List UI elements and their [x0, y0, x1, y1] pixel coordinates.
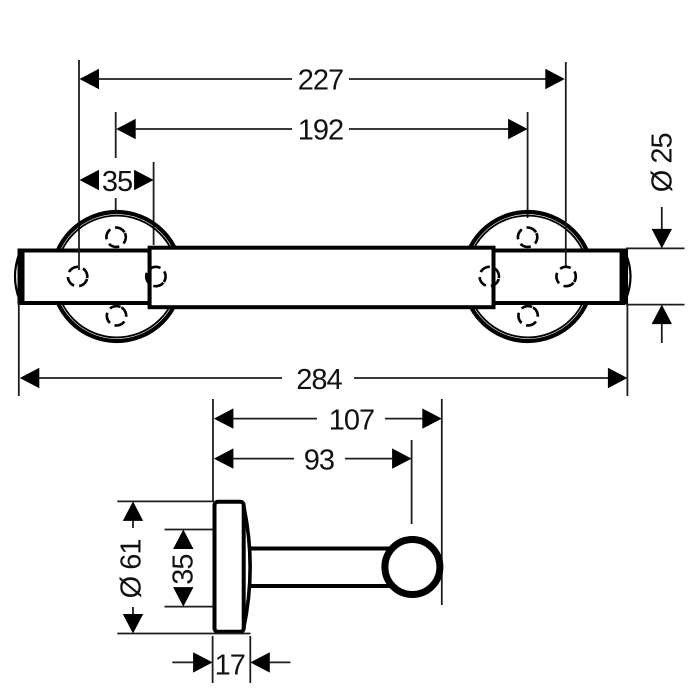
wall plate body (side view) [215, 502, 244, 632]
svg-text:Ø 61: Ø 61 [116, 539, 148, 598]
flange left inner circle [56, 216, 178, 338]
dimension diameter 61 [116, 501, 251, 633]
bar middle grip section [150, 248, 494, 308]
dimension 35 (top view) [80, 166, 154, 198]
svg-text:17: 17 [215, 650, 245, 682]
dimension 17 [172, 636, 290, 683]
screw hole left flange left [66, 265, 90, 289]
svg-text:93: 93 [304, 445, 334, 477]
extension line into bar (227 left, to outer hole) [78, 248, 80, 270]
flange left outer circle [52, 212, 181, 341]
flange right inner circle [467, 216, 589, 338]
screw hole right flange left [477, 265, 501, 289]
extension line right outer hole (227 right) [565, 62, 567, 266]
dimension 35 (side view) [165, 530, 213, 607]
svg-text:35: 35 [102, 166, 132, 198]
screw hole right flange top [515, 224, 541, 250]
bar right end section [494, 251, 624, 304]
extension line left outer hole (227/35 left) [78, 60, 80, 270]
dimension diameter 25 [626, 133, 685, 343]
extension line ball center (93 right) [411, 440, 413, 524]
svg-text:Ø 25: Ø 25 [647, 133, 679, 192]
svg-text:35: 35 [168, 554, 200, 584]
bar left end section [21, 251, 150, 304]
extension line right flange center (192 right) [527, 112, 529, 218]
screw hole right flange right [552, 263, 579, 290]
svg-text:192: 192 [298, 115, 343, 147]
screw hole left flange right [142, 263, 169, 290]
flange right outer circle [463, 212, 592, 341]
ball end (side view) [385, 540, 440, 595]
extension line left flange center (192 left) [115, 112, 117, 158]
svg-text:284: 284 [296, 364, 342, 396]
dimension 227 [80, 65, 565, 97]
arm bottom line (side view) [251, 584, 392, 588]
dimension 93 [214, 445, 412, 477]
screw hole right flange bottom [515, 303, 542, 330]
dimension 284 [19, 303, 628, 396]
extension line wall plane (107/93 left) [212, 399, 214, 501]
wall plate dome arc (side view) [244, 505, 251, 629]
svg-text:227: 227 [298, 65, 343, 97]
screw hole left flange bottom [103, 303, 130, 330]
bar right end cap [620, 249, 629, 305]
extension line ball outer (107 right) [441, 399, 443, 605]
extension line left inner hole (35 right) [153, 162, 155, 245]
arm top line (side view) [251, 547, 392, 551]
svg-text:107: 107 [329, 405, 374, 437]
screw hole left flange top [103, 224, 129, 250]
dimension 107 [214, 405, 442, 437]
dimension 192 [116, 115, 527, 147]
bar left end cap [18, 249, 25, 305]
